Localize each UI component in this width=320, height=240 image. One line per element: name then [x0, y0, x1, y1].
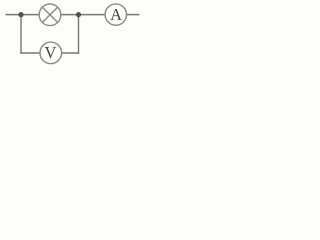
lamp L1 cross stroke 1	[42, 7, 57, 22]
wire: lamp to junction B	[61, 14, 105, 16]
wire: ammeter to right end	[126, 14, 139, 16]
wire: bottom left segment	[20, 52, 40, 54]
wire: right vertical of parallel branch	[78, 15, 80, 54]
lamp L1 cross stroke 2	[42, 7, 57, 22]
wire: left vertical of parallel branch	[20, 15, 22, 54]
node A (junction dot left)	[18, 12, 23, 17]
svg-text:V: V	[45, 43, 57, 62]
svg-text:A: A	[110, 5, 122, 24]
node B (junction dot right)	[76, 12, 81, 17]
wire: top left stub	[6, 14, 40, 16]
wire: bottom right segment	[61, 52, 79, 54]
lamp L1 circle	[39, 4, 61, 26]
voltmeter M2 circle	[40, 42, 62, 64]
ammeter M1 circle	[105, 4, 126, 25]
